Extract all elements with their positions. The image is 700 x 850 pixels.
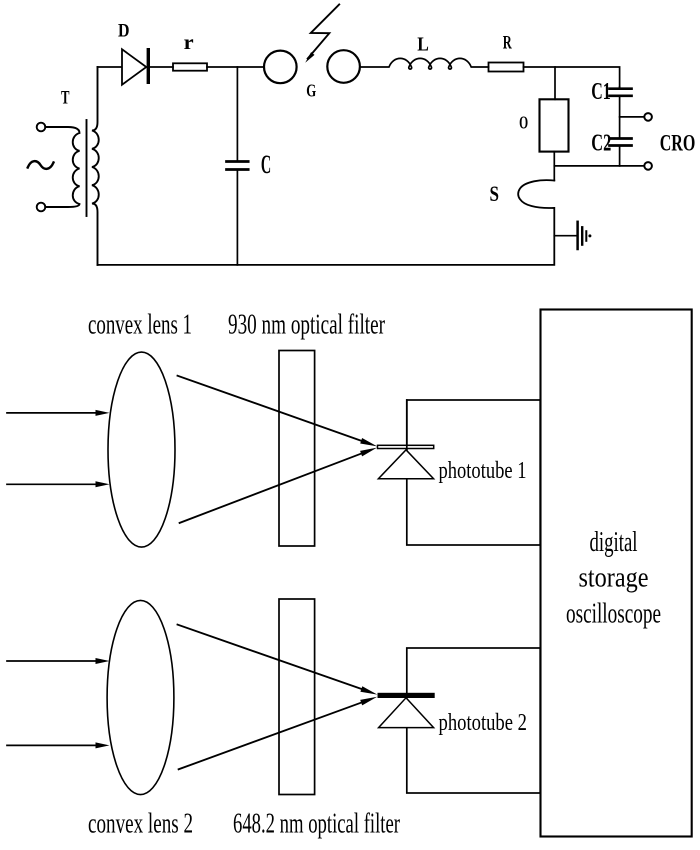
svg-text:r: r — [184, 30, 194, 54]
svg-text:C1: C1 — [591, 79, 611, 105]
svg-text:phototube 1: phototube 1 — [439, 458, 527, 484]
svg-text:C2: C2 — [591, 131, 611, 157]
svg-text:convex lens 1: convex lens 1 — [88, 309, 192, 341]
svg-text:storage: storage — [579, 562, 649, 594]
svg-text:T: T — [61, 88, 70, 109]
svg-text:convex lens 2: convex lens 2 — [88, 808, 193, 840]
svg-text:oscilloscope: oscilloscope — [566, 597, 661, 629]
svg-text:D: D — [118, 20, 130, 41]
svg-text:S: S — [489, 181, 499, 206]
svg-text:CRO: CRO — [660, 131, 696, 157]
svg-text:phototube 2: phototube 2 — [439, 710, 528, 736]
svg-text:648.2 nm optical filter: 648.2 nm optical filter — [233, 808, 400, 840]
svg-text:930 nm optical filter: 930 nm optical filter — [228, 309, 385, 341]
svg-text:L: L — [417, 35, 429, 56]
svg-text:R: R — [503, 34, 512, 54]
svg-text:C: C — [261, 150, 271, 179]
svg-text:G: G — [306, 80, 316, 100]
svg-text:O: O — [519, 113, 528, 133]
svg-text:digital: digital — [590, 526, 638, 558]
